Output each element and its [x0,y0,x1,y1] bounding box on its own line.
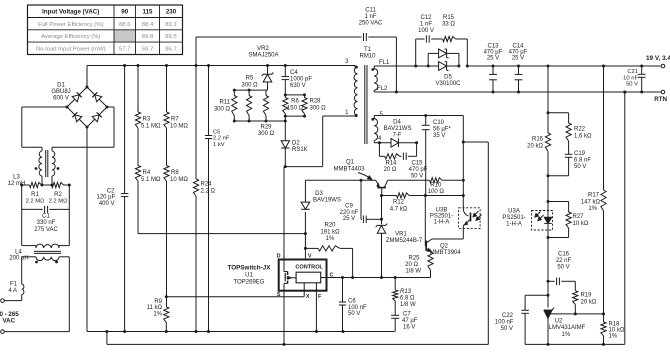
R6 R28 top bar [285,94,304,96]
svg-text:25 V: 25 V [487,56,499,62]
svg-text:R11: R11 [219,100,230,106]
capacitor C14 [518,66,520,74]
resistor R20 [305,247,318,249]
svg-text:600 V: 600 V [53,96,69,102]
svg-text:1 kV: 1 kV [213,142,225,148]
capacitor C7 [394,313,396,315]
U1 control block [296,272,321,283]
resistor R27 loop [547,200,550,203]
svg-text:470 pF: 470 pF [409,167,428,173]
svg-text:20 kΩ: 20 kΩ [527,143,543,149]
TOPSwitch U1 box [279,260,327,291]
svg-text:1.6 kΩ: 1.6 kΩ [574,133,592,139]
U3B phototransistor [463,209,468,217]
svg-text:R1: R1 [31,192,39,198]
output rail [467,65,661,67]
svg-text:R16: R16 [532,137,544,143]
X-cap box right rail [68,185,70,246]
resistor R11 [233,90,235,95]
svg-text:1000 pF: 1000 pF [290,77,312,83]
svg-text:SMAJ250A: SMAJ250A [248,53,278,59]
svg-text:16 V: 16 V [403,325,415,331]
common-mode choke L4 [22,245,36,247]
resistor R8 [166,128,168,166]
resistor R18 [603,314,605,322]
svg-text:MMBT3904: MMBT3904 [430,250,462,256]
svg-text:6.8 Ω: 6.8 Ω [400,295,415,301]
diode D3 [301,202,310,209]
svg-text:147 kΩ: 147 kΩ [581,199,601,205]
svg-text:C7: C7 [403,312,411,318]
svg-text:C11: C11 [365,8,376,14]
svg-text:10 kΩ: 10 kΩ [573,221,589,227]
transistor Q2 MMBT3904 [432,238,463,240]
junction dots R1R2 rail [20,184,23,187]
svg-text:1%: 1% [609,334,618,340]
svg-text:C6: C6 [348,299,356,305]
resistor R24 column [195,66,197,180]
svg-text:89.1: 89.1 [165,22,176,28]
svg-text:150 Ω: 150 Ω [287,105,304,111]
svg-text:10 MΩ: 10 MΩ [170,177,188,183]
svg-text:1 nF: 1 nF [364,14,376,20]
capacitor C5 [208,66,210,136]
svg-text:U2: U2 [555,319,563,325]
svg-text:300 Ω: 300 Ω [241,82,258,88]
svg-text:VR2: VR2 [257,46,269,52]
svg-text:VR1: VR1 [395,232,407,238]
svg-text:X: X [306,294,310,300]
svg-text:230: 230 [166,9,177,16]
svg-text:V30100C: V30100C [435,81,461,87]
svg-text:86.7: 86.7 [165,46,176,52]
svg-text:C14: C14 [512,43,524,49]
svg-text:MMBT4403: MMBT4403 [333,166,365,172]
shunt regulator U2 LMV431 [544,309,552,311]
svg-text:300 Ω: 300 Ω [214,106,231,112]
T1 bias winding pins 5 4 [374,119,378,141]
resistor R12 [397,193,410,198]
svg-text:89.5: 89.5 [165,34,177,40]
svg-text:1%: 1% [562,332,571,338]
svg-text:50 V: 50 V [501,326,513,332]
wire R1-R2 mid [42,184,52,186]
svg-text:300 Ω: 300 Ω [258,131,275,137]
resistor R17 [603,66,605,190]
svg-text:100 nF: 100 nF [495,320,514,326]
svg-text:C21: C21 [627,69,638,75]
svg-text:C2: C2 [107,188,115,194]
svg-text:275 VAC: 275 VAC [34,227,58,233]
svg-text:100 nF: 100 nF [348,305,367,311]
capacitor C13 [492,66,494,74]
capacitor C12 [425,35,427,42]
svg-text:400 V: 400 V [99,201,115,207]
svg-text:20 Ω: 20 Ω [384,167,397,173]
transistor Q1 MMBT4403 [377,187,386,189]
svg-text:U1: U1 [245,273,253,279]
svg-text:12 mH: 12 mH [8,181,26,187]
diode D2 [284,116,286,141]
FB node wire [548,313,604,315]
svg-text:BAV19WS: BAV19WS [313,198,341,204]
svg-text:D3: D3 [315,191,323,197]
V wire dots [304,232,307,235]
wire R8 down to X node [166,181,168,307]
svg-text:630 V: 630 V [290,83,306,89]
bias right vertical [462,116,464,209]
resistor R29 [265,90,267,95]
svg-text:FL2: FL2 [377,86,388,92]
svg-text:47 µF: 47 µF [402,318,418,324]
resistor R5 [248,90,250,95]
svg-text:35 V: 35 V [433,133,445,139]
output terminal 19V [661,64,665,68]
svg-text:57.7: 57.7 [119,46,130,52]
svg-text:10 MΩ: 10 MΩ [170,123,188,129]
U3A LED [547,202,549,218]
svg-text:88.4: 88.4 [142,22,154,28]
S pin wire [283,291,285,345]
svg-text:R13: R13 [400,289,412,295]
wire R12 row [382,195,397,197]
svg-text:56 µF*: 56 µF* [433,127,451,133]
RTN terminal [661,90,665,94]
svg-text:191 kΩ: 191 kΩ [320,229,340,235]
svg-text:7-F: 7-F [393,133,402,139]
clamp resistor bottom bar [234,120,285,122]
wire L3 left to bridge [22,146,42,148]
wire bridge bottom to B- rail [86,127,88,332]
svg-text:C10: C10 [433,120,445,126]
svg-text:C1: C1 [42,214,50,220]
svg-text:Q1: Q1 [346,160,355,166]
svg-text:R2: R2 [54,192,62,198]
svg-text:Average Efficiency (%): Average Efficiency (%) [41,34,100,40]
svg-text:TOPSwitch-JX: TOPSwitch-JX [228,265,272,272]
wire bias rail y180 [305,179,375,181]
T1 secondary winding FL1 FL2 [374,69,378,91]
capacitor C16 [548,280,555,282]
resistor R25 [428,252,433,270]
svg-text:R24: R24 [201,182,213,188]
svg-text:Input Voltage (VAC): Input Voltage (VAC) [42,9,99,16]
svg-text:R17: R17 [588,193,600,199]
svg-text:115: 115 [143,9,154,16]
C wire dots [341,276,344,279]
svg-text:R19: R19 [581,293,593,299]
svg-text:100 Ω: 100 Ω [428,189,445,195]
L3 phasing dots [35,167,38,170]
svg-text:L4: L4 [15,249,22,255]
svg-text:RM10: RM10 [359,54,376,60]
secondary output wire FL1 [373,66,375,69]
svg-text:C4: C4 [290,70,298,76]
bridge vertex dots [86,86,89,89]
svg-text:2.2 MΩ: 2.2 MΩ [49,198,68,204]
B- rail junction dots [105,330,108,333]
fuse F1 [21,295,23,301]
table: efficiency data [28,5,183,55]
jog to signal return riser [463,141,488,143]
rectifier D5 lower diode [428,65,438,67]
svg-text:C15: C15 [411,161,423,167]
svg-text:D1: D1 [57,83,65,89]
svg-text:300 Ω: 300 Ω [310,105,327,111]
svg-text:RTN: RTN [654,96,667,103]
svg-text:GBU8J: GBU8J [51,89,70,95]
svg-text:TOP269EG: TOP269EG [234,280,265,286]
svg-text:Full Power Efficiency (%): Full Power Efficiency (%) [38,22,103,28]
U3B light arrows [474,211,479,216]
svg-text:PS2501-: PS2501- [502,215,525,221]
svg-text:88.6: 88.6 [119,22,131,28]
svg-text:R6: R6 [291,99,299,105]
resistor R9 [164,307,169,323]
resistor R3 [137,66,139,113]
svg-text:R10: R10 [430,183,442,189]
svg-text:R20: R20 [324,223,336,229]
svg-text:BAV21WS: BAV21WS [384,126,412,132]
resistor R28 [304,95,306,98]
svg-text:4.7 kΩ: 4.7 kΩ [390,207,408,213]
primary B- rail [87,331,395,333]
X-cap box left rail [21,185,23,246]
svg-text:50 V: 50 V [557,265,569,271]
svg-text:20 Ω: 20 Ω [405,262,418,268]
svg-text:50 V: 50 V [348,311,360,317]
resistor R13 [394,278,396,291]
bias rail dot [360,179,363,182]
svg-text:R12: R12 [393,200,405,206]
T1 core [364,65,366,144]
optocoupler U3B box [459,208,481,229]
T1 pin dots and labels 3 1 [355,66,358,69]
resistor R15 [443,36,456,41]
svg-text:59.7: 59.7 [142,46,153,52]
resistor R7 [166,66,168,113]
TVS VR2 [267,66,269,75]
wire LED cathode down [547,238,549,308]
diode D4 [391,139,399,148]
transformer T1 primary winding [354,67,358,116]
svg-text:C16: C16 [558,252,570,258]
clamp resistor top bar [234,89,267,91]
svg-text:5.1 MΩ: 5.1 MΩ [141,123,161,129]
resistor R2 [64,184,70,186]
svg-text:1%: 1% [153,311,162,317]
feedback chain R16 [547,66,549,133]
svg-text:R29: R29 [260,124,272,130]
capacitor C22 branch [525,294,548,296]
svg-text:R5: R5 [246,76,254,82]
svg-text:D2: D2 [292,141,300,147]
capacitor C21 [641,66,643,74]
svg-text:ZMM5244B-7: ZMM5244B-7 [386,238,423,244]
B+ rail [87,65,355,67]
svg-text:R7: R7 [171,117,179,123]
svg-text:R4: R4 [143,170,151,176]
capacitor C9 [360,180,362,219]
svg-text:1-H-A: 1-H-A [434,219,450,225]
svg-text:120 µF: 120 µF [96,195,115,201]
svg-text:C13: C13 [487,43,499,49]
optocoupler U3A box [532,211,553,231]
svg-text:25 V: 25 V [343,216,355,222]
B+ rail junction dots [123,64,126,67]
svg-text:R8: R8 [171,170,179,176]
R12 row dots [424,194,427,197]
svg-text:R27: R27 [573,214,585,220]
svg-text:C22: C22 [502,313,514,319]
V pin wire [304,212,306,260]
wire drain to D pin [283,167,285,260]
Q1 base wire [381,188,383,196]
svg-text:1-H-A: 1-H-A [506,222,522,228]
svg-text:CONTROL: CONTROL [295,265,323,271]
bridge rectifier D1 [87,87,107,107]
svg-text:19 V, 3.42 A: 19 V, 3.42 A [646,55,670,62]
svg-text:VAC: VAC [3,318,16,325]
svg-text:FL1: FL1 [379,60,390,66]
AC input terminal bottom [1,330,5,334]
capacitor C2 [124,66,126,194]
svg-text:C12: C12 [420,15,432,21]
bias pin5 wire [373,116,375,119]
X pin wire [303,291,305,297]
U3A light arrows [539,215,544,220]
resistor R10 [388,179,430,181]
svg-text:10 nF: 10 nF [623,75,638,81]
svg-text:S: S [277,292,281,298]
svg-text:1/8 W: 1/8 W [405,268,421,274]
svg-text:22 nF: 22 nF [556,258,572,264]
svg-text:C19: C19 [574,151,586,157]
AC input terminal top [1,299,5,303]
svg-text:4 A: 4 A [8,288,17,294]
svg-text:2.2 nF: 2.2 nF [213,136,230,142]
wire X pin to R9 [166,296,304,298]
Y-capacitor C11 [195,37,197,66]
wire drain to T1 pin1 [285,166,322,168]
rectifier D5 upper diode [427,53,429,66]
resistor R1 [22,184,30,186]
primary signal return rail [106,332,108,345]
svg-text:R14: R14 [385,161,397,167]
svg-text:20 kΩ: 20 kΩ [581,299,597,305]
capacitor C6 [342,278,344,303]
secondary gnd rail [548,343,625,345]
C pin wire [327,277,431,279]
wire AC bottom riser [68,257,70,332]
R22 C19 branch [548,112,569,114]
resistor R4 [137,128,139,166]
svg-text:1 nF: 1 nF [420,22,432,28]
capacitor C1 [22,208,43,210]
svg-text:R28: R28 [310,99,322,105]
svg-text:Q2: Q2 [440,244,449,250]
svg-text:89.8: 89.8 [142,34,154,40]
svg-text:R15: R15 [443,15,455,21]
R6 R28 bottom bar [285,115,304,117]
L4 phasing dots [35,261,38,264]
svg-text:R22: R22 [574,127,586,133]
svg-text:RS1K: RS1K [292,147,308,153]
svg-text:1%: 1% [588,206,597,212]
svg-text:6.8 nF: 6.8 nF [574,158,591,164]
svg-text:1/8 W: 1/8 W [400,302,416,308]
svg-text:LMV431AIMF: LMV431AIMF [549,325,586,331]
svg-text:250 VAC: 250 VAC [359,21,383,27]
svg-text:50 V: 50 V [574,164,586,170]
F pin wire [315,291,317,332]
svg-text:L3: L3 [13,175,20,181]
svg-text:R25: R25 [408,256,420,262]
svg-text:R9: R9 [154,299,162,305]
snubber riser left [414,65,417,68]
svg-text:D5: D5 [444,75,452,81]
svg-text:90: 90 [121,9,128,16]
capacitor C10 [425,116,427,126]
svg-text:330 nF: 330 nF [37,220,56,226]
svg-text:1%: 1% [326,236,335,242]
svg-text:C5: C5 [213,130,220,136]
wire bridge top to B+ rail [86,66,88,88]
svg-text:V: V [308,254,312,260]
svg-text:10 kΩ: 10 kΩ [609,328,625,334]
snubber R14 C15 across D4 [378,143,380,157]
capacitor C4 [284,66,286,77]
svg-text:220 nF: 220 nF [340,210,359,216]
svg-text:U3A: U3A [508,209,520,215]
resistor R19 [573,291,578,305]
svg-text:50 V: 50 V [626,82,638,88]
svg-text:F1: F1 [10,282,18,288]
U1 inner pin stubs [303,283,305,291]
svg-text:25 V: 25 V [512,56,524,62]
svg-text:2.2 MΩ: 2.2 MΩ [26,198,45,204]
svg-text:11 kΩ: 11 kΩ [147,305,163,311]
zener VR1 [381,196,383,225]
svg-text:R18: R18 [609,322,621,328]
RTN rail [373,90,375,92]
signal rail dot S pin [283,343,286,346]
svg-text:C9: C9 [345,204,353,210]
svg-text:50 V: 50 V [411,174,423,180]
svg-text:5.1 MΩ: 5.1 MΩ [141,177,161,183]
common-mode choke L3 [41,147,43,151]
svg-text:200 µH: 200 µH [9,256,28,262]
RTN riser [624,92,626,344]
svg-text:100 V: 100 V [418,28,434,34]
svg-text:33 Ω: 33 Ω [442,22,455,28]
wire R4 to V sense [137,181,139,234]
svg-text:D: D [277,254,281,260]
wire L3 right to bridge [52,146,114,148]
drain node dot [284,165,287,168]
bias pin4 wire [373,141,375,143]
U1 mosfet symbol [283,260,285,272]
svg-text:D4: D4 [393,120,401,126]
svg-text:T1: T1 [364,47,372,53]
svg-text:No-load Input Power (mW): No-load Input Power (mW) [36,46,106,52]
resistor R6 [284,95,286,98]
svg-text:R3: R3 [143,117,151,123]
